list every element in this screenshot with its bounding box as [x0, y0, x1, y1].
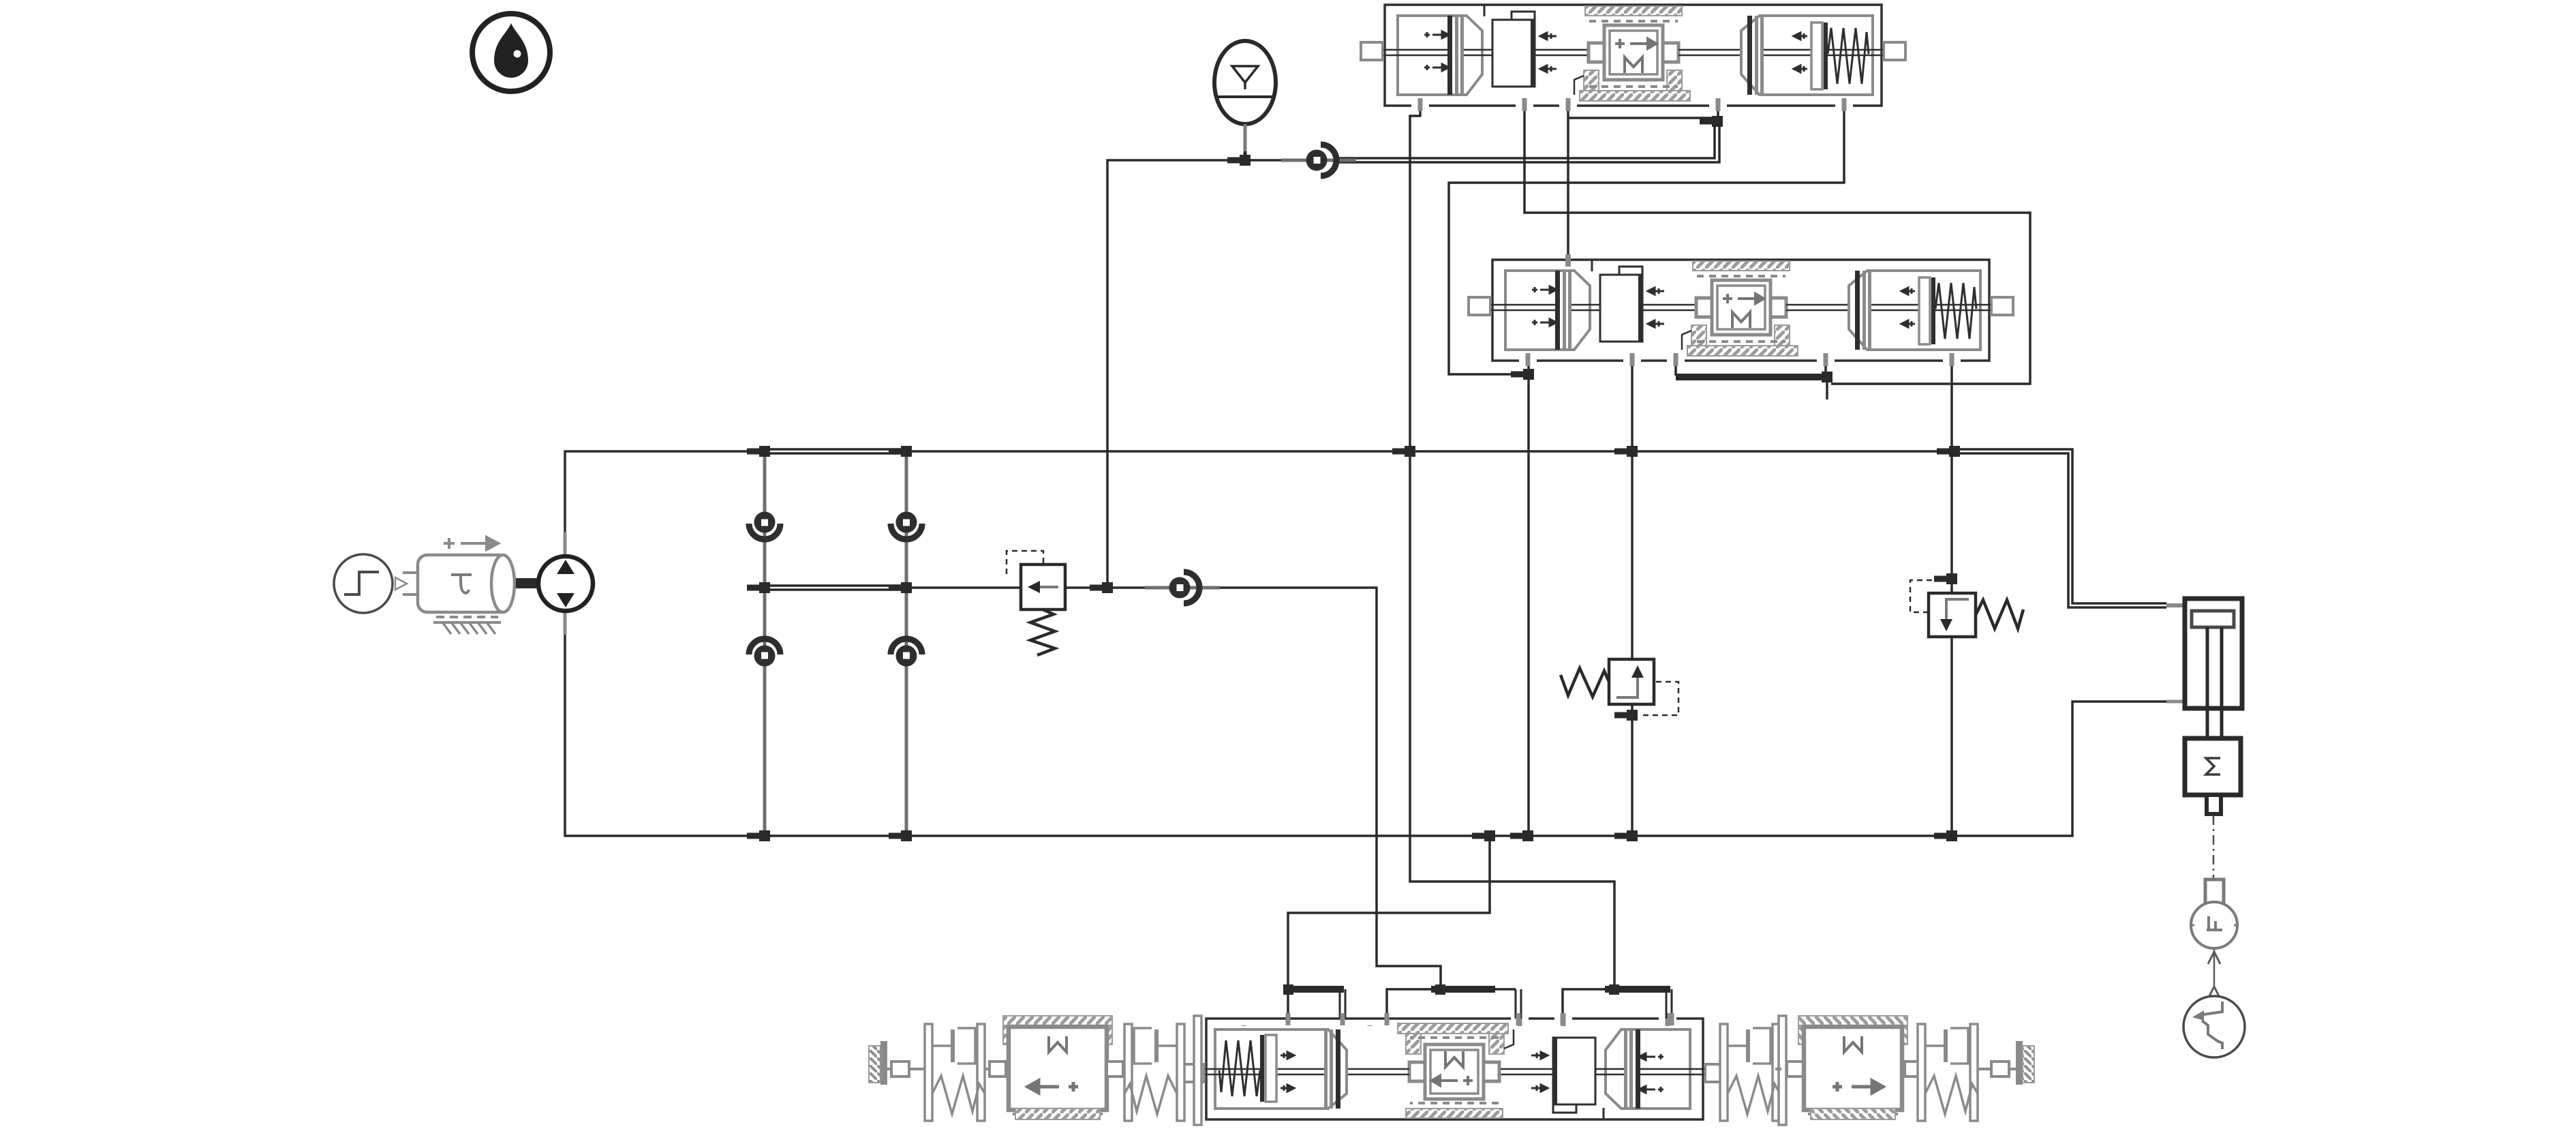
junction supply rail / RV3 line — [1937, 446, 1960, 457]
junction RV3 pilot tap — [1934, 573, 1957, 584]
junction supply rail / RV2 line — [1614, 446, 1638, 457]
spring-damper D2 — [1124, 1024, 1184, 1121]
main valve assembly U2 — [1469, 260, 2013, 366]
wire main valve port A to return rail — [1527, 357, 1530, 836]
hydraulic fluid badge — [472, 14, 550, 91]
junction supply rail / column A — [747, 446, 770, 457]
junction return rail / boost valve staircase — [1472, 830, 1495, 841]
left wall anchor — [869, 1041, 925, 1085]
wire supply rail double segment — [765, 449, 906, 453]
wire main valve port E to RV3 — [1950, 357, 1953, 593]
link stub — [1107, 1062, 1123, 1077]
junction main valve port A — [1511, 369, 1534, 380]
pressure relief valve RV3 — [1910, 580, 2023, 637]
torque source — [403, 537, 515, 634]
tall coupler plate — [1194, 1016, 1201, 1125]
wire RV3 outlet to return rail — [1950, 637, 1953, 836]
check valve CV5 — [1281, 145, 1356, 176]
boost channel thick wire — [1676, 374, 1821, 380]
junction pilot valve port D — [1700, 116, 1723, 127]
signal arrow — [2208, 950, 2220, 989]
pressure relief valve RV1 — [1007, 551, 1065, 655]
signal pointer — [395, 577, 407, 590]
wire compensator line into RV1 — [904, 586, 1021, 589]
wire main valve port D stub — [1824, 357, 1827, 376]
wire supply rail to cylinder head port (inner) — [1954, 453, 2166, 607]
wire main valve port C stub — [1674, 357, 1677, 376]
boost valve port jumper B — [1385, 984, 1522, 1025]
wire accumulator branch riser — [1107, 160, 1303, 588]
check valve CV1 — [749, 512, 780, 540]
mass block B1 — [1003, 1016, 1112, 1119]
mass block B2 — [1798, 1016, 1907, 1119]
link stub — [1905, 1062, 1922, 1077]
junction supply rail / column B — [889, 446, 912, 457]
wire main valve port B to RV2 — [1631, 357, 1634, 659]
junction compensator line / column A — [747, 582, 770, 593]
junction return rail / column B — [889, 830, 912, 841]
boost valve port jumper C — [1561, 984, 1674, 1025]
junction accumulator stem — [1227, 155, 1251, 166]
wire return rail pump to cylinder rod port — [565, 612, 2183, 836]
right wall anchor — [2016, 1041, 2034, 1085]
force sensor — [2190, 879, 2239, 948]
wire pump outlet to supply rail — [565, 451, 767, 556]
wire pilot port C link — [1568, 117, 1715, 119]
wire boost junction nub — [1826, 377, 1828, 400]
check valve column B wire — [905, 451, 908, 836]
wire supply rail to cylinder head port (outer) — [1954, 449, 2166, 603]
junction compensator line / accumulator riser — [1090, 582, 1113, 593]
wire accumulator stem — [1244, 123, 1246, 160]
tall coupler plate — [1779, 1016, 1786, 1125]
load mass M — [2185, 738, 2241, 814]
hydraulic cylinder — [2166, 599, 2242, 738]
step source — [334, 554, 393, 613]
drive shaft — [516, 578, 540, 588]
check valve CV4 — [891, 639, 922, 667]
wire pilot valve port E to main valve port A junction — [1449, 106, 1844, 374]
wire pilot valve port A to boost valve port C — [1410, 106, 1614, 989]
check valve column A wire — [763, 451, 767, 836]
link stub — [1978, 1062, 2016, 1077]
wire pilot valve port D stub — [1717, 106, 1719, 120]
check valve CV3 — [749, 639, 780, 667]
junction RV2 pilot tap — [1614, 710, 1638, 721]
main valve pilot port stub — [1565, 254, 1571, 267]
link stub — [985, 1062, 1006, 1077]
boost valve assembly U3 — [1182, 1013, 1727, 1119]
check valve CV6 — [1145, 572, 1220, 603]
spring-damper D4 — [1918, 1024, 1978, 1121]
check valve CV2 — [891, 512, 922, 540]
pilot valve assembly U1 — [1361, 5, 1905, 111]
junction return rail / main valve port A line — [1510, 830, 1533, 841]
wire return rail to boost valve port A — [1288, 836, 1490, 989]
boost valve port jumper A — [1283, 984, 1345, 1025]
accumulator — [1214, 41, 1276, 161]
junction compensator line / column B — [889, 582, 912, 593]
rigid link dash-dot — [2213, 815, 2215, 878]
wire supply rail main run — [904, 450, 1954, 453]
force input source — [2183, 987, 2245, 1057]
junction return rail / RV3 line — [1934, 830, 1957, 841]
wire pilot valve port B to main valve boost junction — [1524, 106, 2030, 384]
wire pilot valve port C to main valve pilot port — [1567, 106, 1569, 260]
junction supply rail / pilot port A line — [1392, 446, 1415, 457]
spring-damper D1 — [925, 1024, 985, 1121]
pump — [538, 532, 593, 635]
pressure relief valve RV2 — [1561, 659, 1678, 715]
junction return rail / RV2 line — [1614, 830, 1638, 841]
wire compensator line double segment — [765, 586, 906, 590]
wire check valve CV5 to pilot valve port (double) — [1336, 121, 1719, 162]
link stub — [1775, 1062, 1803, 1077]
junction return rail / column A — [747, 830, 770, 841]
wire RV2 outlet to return rail — [1631, 706, 1634, 836]
spring-damper D3 — [1720, 1024, 1780, 1121]
junction boost channel — [1809, 372, 1833, 382]
wire RV1 outlet to boost valve port B — [1065, 588, 1441, 989]
